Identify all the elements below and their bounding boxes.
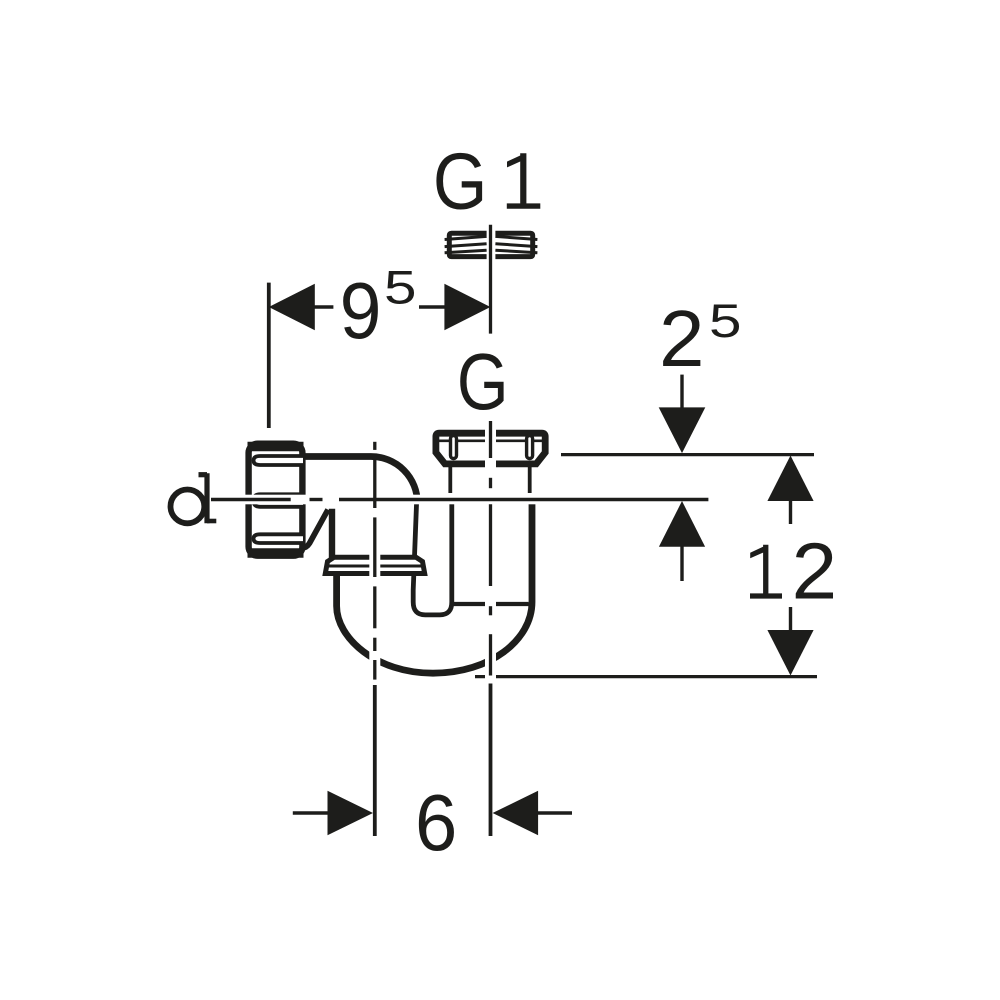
2.5 dim up arrowhead: [659, 501, 705, 547]
left leg centerline extension / 6-dim left extension line: [373, 685, 377, 836]
inlet compression nut (left): [249, 444, 303, 556]
outlet tube below G nut: [448, 466, 452, 493]
G1 thread right hatch lines: [495, 236, 537, 239]
trap left leg outer edge above collar: [329, 509, 335, 558]
inlet pipe bottom edge with conical transition (zigzag): [302, 510, 329, 549]
G union nut (top): [436, 433, 545, 464]
halo of outlet centerline: [485, 421, 496, 690]
G nut left slot: [451, 436, 457, 459]
G nut inner line: [437, 439, 545, 442]
9.5 dim left arrow stem: [314, 305, 333, 309]
12 dim up arrowhead: [767, 456, 813, 502]
centerline of left leg (x=374.8) dash segments: [373, 442, 376, 450]
svg-text:5: 5: [709, 294, 742, 347]
svg-text:9: 9: [340, 266, 382, 355]
top dimension line (level of trap top): [561, 453, 814, 456]
centerline of outlet (x=490.5) dash segments: [489, 225, 492, 334]
label G 1: [433, 137, 540, 226]
6 dim left arrow stem: [293, 811, 329, 815]
inlet nut bottom bar: [248, 548, 304, 558]
halo of left leg centerline: [369, 517, 380, 690]
trap U-bend outer contour (right leg outer edge + bottom arc): [337, 500, 532, 673]
9.5 dim left arrowhead: [269, 284, 315, 330]
compression collar on left leg: [325, 557, 424, 573]
inlet nut rib 3: [254, 534, 304, 543]
svg-text:G: G: [457, 337, 509, 426]
12 dim down arrowhead: [767, 630, 813, 676]
2.5 dim down arrow stem: [680, 375, 683, 408]
6 dim right arrow stem: [537, 811, 572, 815]
inlet nut rib 1: [254, 456, 304, 465]
outlet centerline extension / 6-dim right extension line: [489, 684, 493, 837]
9.5 dim right arrow stem: [419, 305, 445, 309]
6 dim right arrowhead: [493, 791, 538, 836]
svg-text:2: 2: [659, 294, 705, 383]
svg-text:2: 2: [792, 527, 838, 616]
G1 thread symbol right block: [495, 233, 532, 256]
inlet nut rib 2 (middle): [254, 494, 304, 507]
label 12: [750, 527, 837, 616]
bottom dimension line (tangent to U bottom, before halos): [475, 675, 817, 678]
2.5 dim up arrow stem: [680, 546, 683, 581]
G1 thread symbol left block: [449, 233, 486, 256]
outlet tube lower end inside housing: [454, 602, 529, 606]
9.5 dim right arrowhead: [444, 284, 490, 330]
label d (inlet diameter): [171, 473, 217, 523]
G nut right slot: [527, 436, 533, 459]
svg-text:5: 5: [384, 261, 417, 314]
12 dim down arrow stem: [789, 607, 792, 631]
collar mid line: [326, 565, 425, 568]
d axis centerline dash segments: [211, 498, 291, 501]
halo of d axis: [210, 495, 708, 505]
9.5 dim left extension line: [267, 283, 271, 428]
trap inner contour (right leg inner edge + inner arc + left leg inner edge): [413, 500, 452, 615]
centerline white halos: [210, 421, 708, 690]
svg-text:6: 6: [415, 778, 457, 867]
G1 thread left hatch lines: [445, 236, 487, 239]
inlet nut top bar: [248, 442, 304, 452]
6 dim left arrowhead: [328, 791, 374, 836]
2.5 dim down arrowhead: [659, 407, 706, 453]
svg-text:G: G: [433, 137, 488, 226]
12 dim up arrow stem: [789, 500, 792, 524]
pipe elbow outer edge (inlet top): [302, 457, 417, 503]
